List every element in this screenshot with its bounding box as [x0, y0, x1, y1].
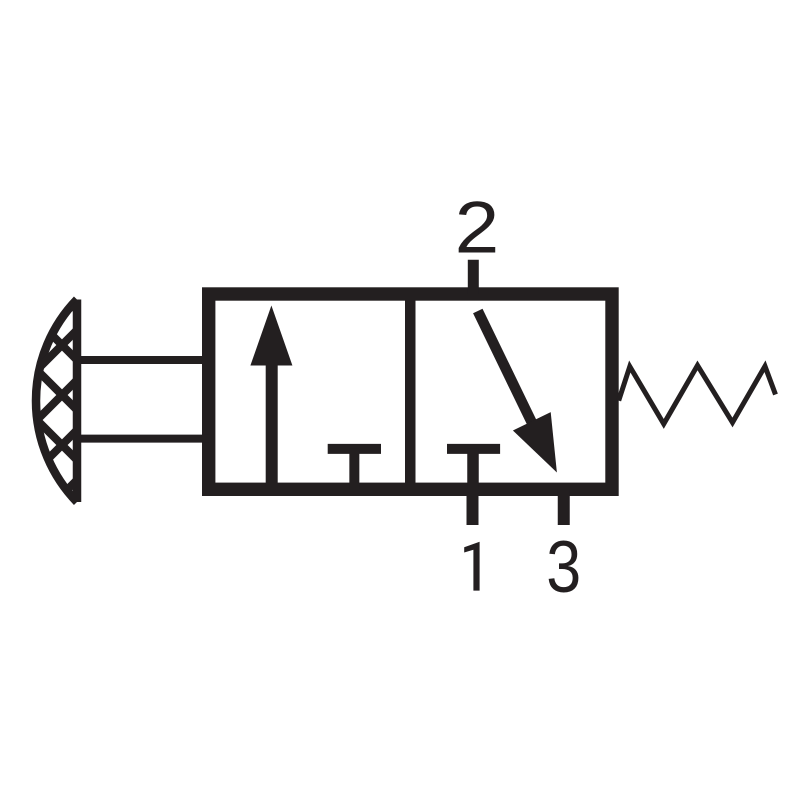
svg-text:3: 3	[546, 527, 581, 608]
svg-text:2: 2	[455, 188, 500, 269]
